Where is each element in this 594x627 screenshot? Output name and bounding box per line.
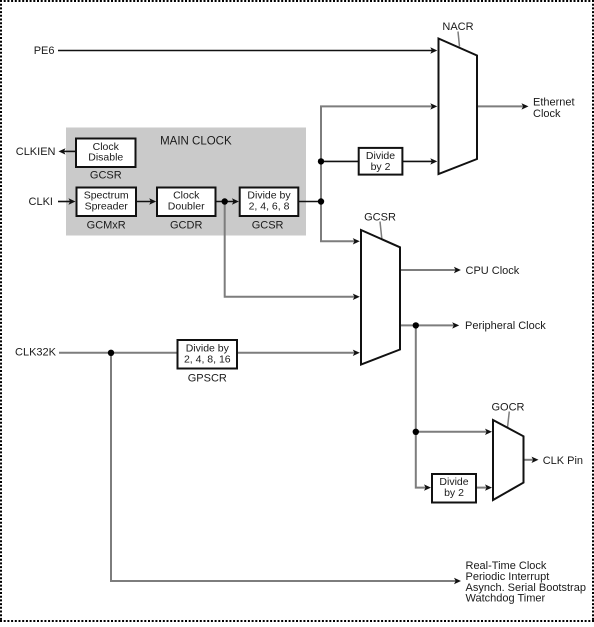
svg-text:PE6: PE6	[34, 45, 55, 57]
svg-text:GCSR: GCSR	[252, 220, 284, 232]
svg-text:CLKI: CLKI	[29, 196, 53, 208]
svg-text:Divide: Divide	[366, 150, 395, 162]
svg-text:CPU Clock: CPU Clock	[466, 265, 520, 277]
svg-text:GCMxR: GCMxR	[87, 220, 126, 232]
svg-text:Doubler: Doubler	[168, 200, 205, 212]
svg-text:CLK Pin: CLK Pin	[543, 455, 583, 467]
svg-text:GCSR: GCSR	[90, 169, 122, 181]
svg-text:Clock: Clock	[533, 108, 561, 120]
svg-text:GCDR: GCDR	[170, 220, 202, 232]
svg-text:Peripheral Clock: Peripheral Clock	[465, 320, 546, 332]
svg-text:Divide: Divide	[439, 476, 468, 488]
svg-text:2, 4, 6, 8: 2, 4, 6, 8	[249, 200, 290, 212]
svg-text:CLK32K: CLK32K	[15, 346, 57, 358]
svg-text:NACR: NACR	[442, 21, 473, 33]
svg-text:MAIN CLOCK: MAIN CLOCK	[160, 136, 232, 148]
svg-text:Disable: Disable	[88, 152, 123, 164]
svg-text:by 2: by 2	[444, 487, 464, 499]
svg-text:GOCR: GOCR	[492, 401, 525, 413]
svg-text:Spreader: Spreader	[85, 200, 129, 212]
svg-text:Ethernet: Ethernet	[533, 96, 575, 108]
svg-text:GCSR: GCSR	[364, 211, 396, 223]
svg-text:Divide by: Divide by	[186, 342, 230, 354]
svg-text:by 2: by 2	[371, 161, 391, 173]
svg-text:CLKIEN: CLKIEN	[16, 146, 56, 158]
svg-text:GPSCR: GPSCR	[188, 372, 227, 384]
svg-text:2, 4, 8, 16: 2, 4, 8, 16	[184, 354, 231, 366]
svg-text:Watchdog Timer: Watchdog Timer	[466, 593, 546, 605]
